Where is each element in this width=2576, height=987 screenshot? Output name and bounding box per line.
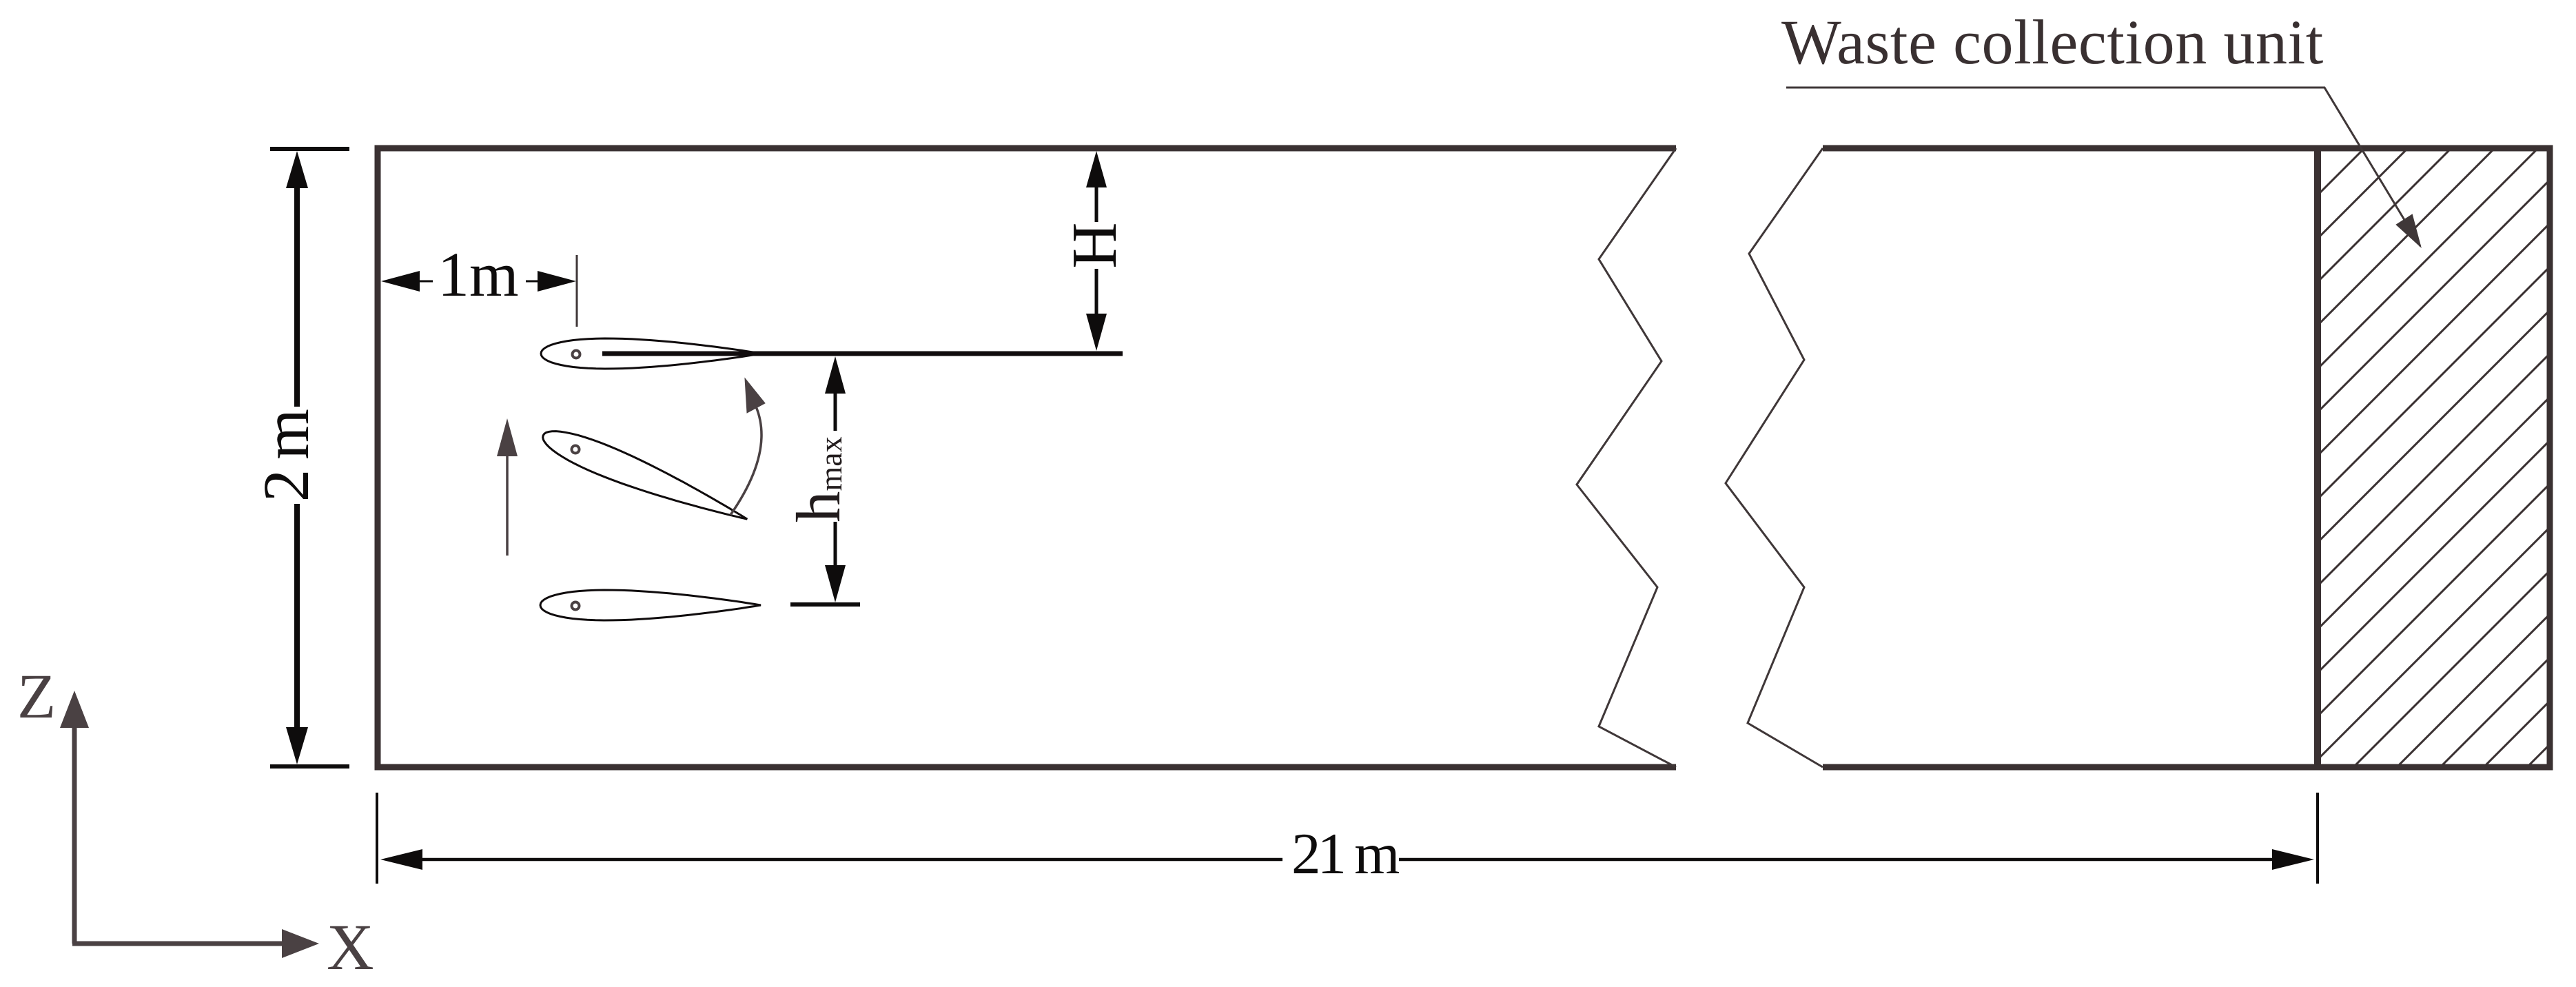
waste collection unit hatching (2318, 0, 2576, 977)
pitch arrowhead (745, 378, 765, 413)
svg-text:H: H (1059, 222, 1130, 268)
dimension 1 m: right tick (576, 255, 578, 327)
dimension 2 m: line upper segment (294, 186, 300, 407)
dimension 21 m: left tick (376, 793, 378, 884)
dimension H: lower segment with down arrowhead (1095, 269, 1098, 316)
dimension h_max: bottom tick (790, 602, 860, 607)
airfoil bottom position (540, 590, 761, 620)
dimension 1 m: right arrowhead (538, 271, 576, 292)
airfoil top position (541, 338, 761, 369)
heave up arrow (506, 456, 509, 556)
pitch curved arrow (730, 407, 761, 515)
dimension 2 m: bottom tick (270, 764, 349, 769)
channel outline left part (378, 148, 1676, 767)
dimension 1 m: right tail line (526, 281, 540, 283)
airfoil mid pivot circle (572, 446, 580, 454)
svg-text:Waste collection unit: Waste collection unit (1781, 7, 2324, 77)
airfoil top pivot circle (573, 351, 580, 358)
dimension 21 m: right tick (2316, 793, 2319, 884)
dimension 2 m: up arrowhead (286, 151, 308, 188)
dimension H: line upper segment with up arrowhead (1086, 151, 1107, 187)
axis Z arrow (72, 726, 77, 944)
dimension h_max: bottom arrow (834, 522, 837, 567)
dimension 21 m: left arrowhead (380, 849, 422, 870)
airfoil bottom pivot circle (572, 602, 580, 610)
dimension 2 m: line lower segment (294, 504, 300, 731)
dimension 21 m: right arrowhead (2272, 849, 2314, 870)
dimension 2 m: top tick (270, 147, 349, 151)
dimension 2 m: down arrowhead (286, 727, 308, 764)
break zigzag left (1577, 148, 1676, 767)
airfoil rotated mid position (538, 421, 753, 533)
leader line of waste collection unit (1786, 88, 2420, 246)
svg-text:1m: 1m (438, 239, 519, 309)
dimension 1 m: left tail line (418, 281, 433, 283)
dimension 1 m: left arrowhead (381, 271, 420, 292)
break zigzag right (1726, 148, 1823, 767)
channel outline right part (1823, 148, 2550, 767)
dimension 21 m: line left segment (419, 858, 1282, 862)
leader arrowhead (2397, 215, 2420, 246)
svg-text:21 m: 21 m (1291, 822, 1399, 886)
svg-text:Z: Z (17, 661, 56, 731)
airfoil trailing line (602, 352, 1123, 356)
waste collection unit wall divider (2314, 148, 2321, 767)
dimension 21 m: line right segment (1399, 858, 2276, 862)
dimension h_max: top arrow (825, 356, 846, 394)
svg-text:hmax: hmax (784, 436, 853, 522)
svg-text:X: X (327, 910, 374, 984)
axis X arrow (72, 942, 284, 946)
svg-text:2 m: 2 m (249, 409, 323, 502)
